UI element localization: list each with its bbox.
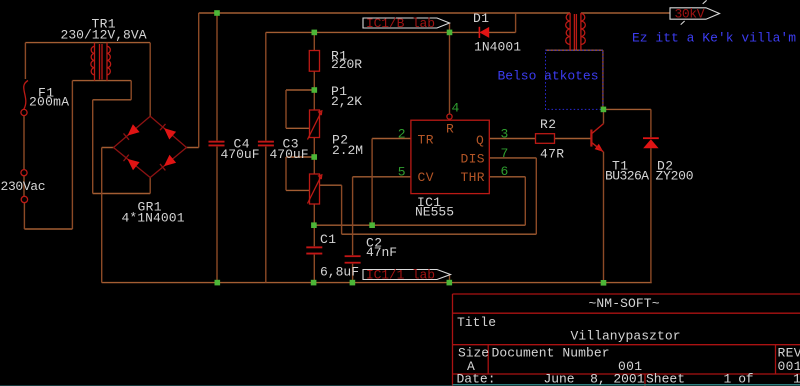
svg-text:~NM-SOFT~: ~NM-SOFT~ [589, 296, 660, 311]
svg-text:6: 6 [501, 164, 509, 179]
svg-text:TR: TR [418, 133, 434, 148]
svg-text:2,2K: 2,2K [331, 94, 362, 109]
svg-text:IC1/1 lab: IC1/1 lab [366, 267, 435, 282]
svg-text:4: 4 [452, 101, 460, 116]
svg-text:7: 7 [501, 146, 509, 161]
svg-text:2.2M: 2.2M [332, 143, 363, 158]
svg-text:R: R [446, 122, 454, 137]
svg-text:47nF: 47nF [366, 245, 397, 260]
svg-text:470uF: 470uF [221, 147, 260, 162]
svg-text:230Vac: 230Vac [1, 179, 46, 194]
svg-text:30kV: 30kV [675, 7, 705, 22]
svg-text:220R: 220R [331, 57, 362, 72]
svg-text:THR: THR [461, 170, 485, 185]
svg-text:2: 2 [398, 127, 406, 142]
svg-text:230/12V,8VA: 230/12V,8VA [61, 28, 147, 43]
svg-text:ZY200: ZY200 [656, 169, 694, 184]
svg-text:R2: R2 [540, 117, 556, 132]
svg-text:470uF: 470uF [270, 147, 309, 162]
svg-text:C1: C1 [320, 232, 336, 247]
svg-text:Villanypasztor: Villanypasztor [571, 329, 681, 344]
svg-text:6,8uF: 6,8uF [320, 265, 359, 280]
svg-text:DIS: DIS [461, 152, 485, 167]
svg-text:IC1/B lab: IC1/B lab [366, 16, 435, 31]
svg-text:5: 5 [398, 165, 406, 180]
svg-text:Ez itt a Ke'k villa'm: Ez itt a Ke'k villa'm [632, 31, 796, 46]
svg-text:D1: D1 [473, 11, 489, 26]
svg-text:1: 1 [793, 372, 800, 386]
svg-text:1 of: 1 of [724, 372, 754, 386]
svg-text:47R: 47R [540, 147, 564, 162]
svg-text:Document Number: Document Number [492, 346, 610, 361]
svg-text:Sheet: Sheet [646, 372, 685, 386]
svg-text:Q: Q [476, 133, 484, 148]
svg-text:NE555: NE555 [415, 205, 454, 220]
svg-text:CV: CV [418, 170, 434, 185]
svg-text:Belso atkotes: Belso atkotes [498, 69, 599, 84]
svg-text:June 8, 2001: June 8, 2001 [544, 372, 645, 386]
svg-text:3: 3 [501, 127, 509, 142]
svg-text:BU326A: BU326A [605, 169, 649, 184]
svg-text:4*1N4001: 4*1N4001 [122, 211, 185, 226]
svg-text:Date:: Date: [457, 372, 496, 386]
svg-text:1N4001: 1N4001 [474, 40, 521, 55]
svg-text:Title: Title [457, 315, 496, 330]
svg-text:200mA: 200mA [29, 95, 69, 110]
